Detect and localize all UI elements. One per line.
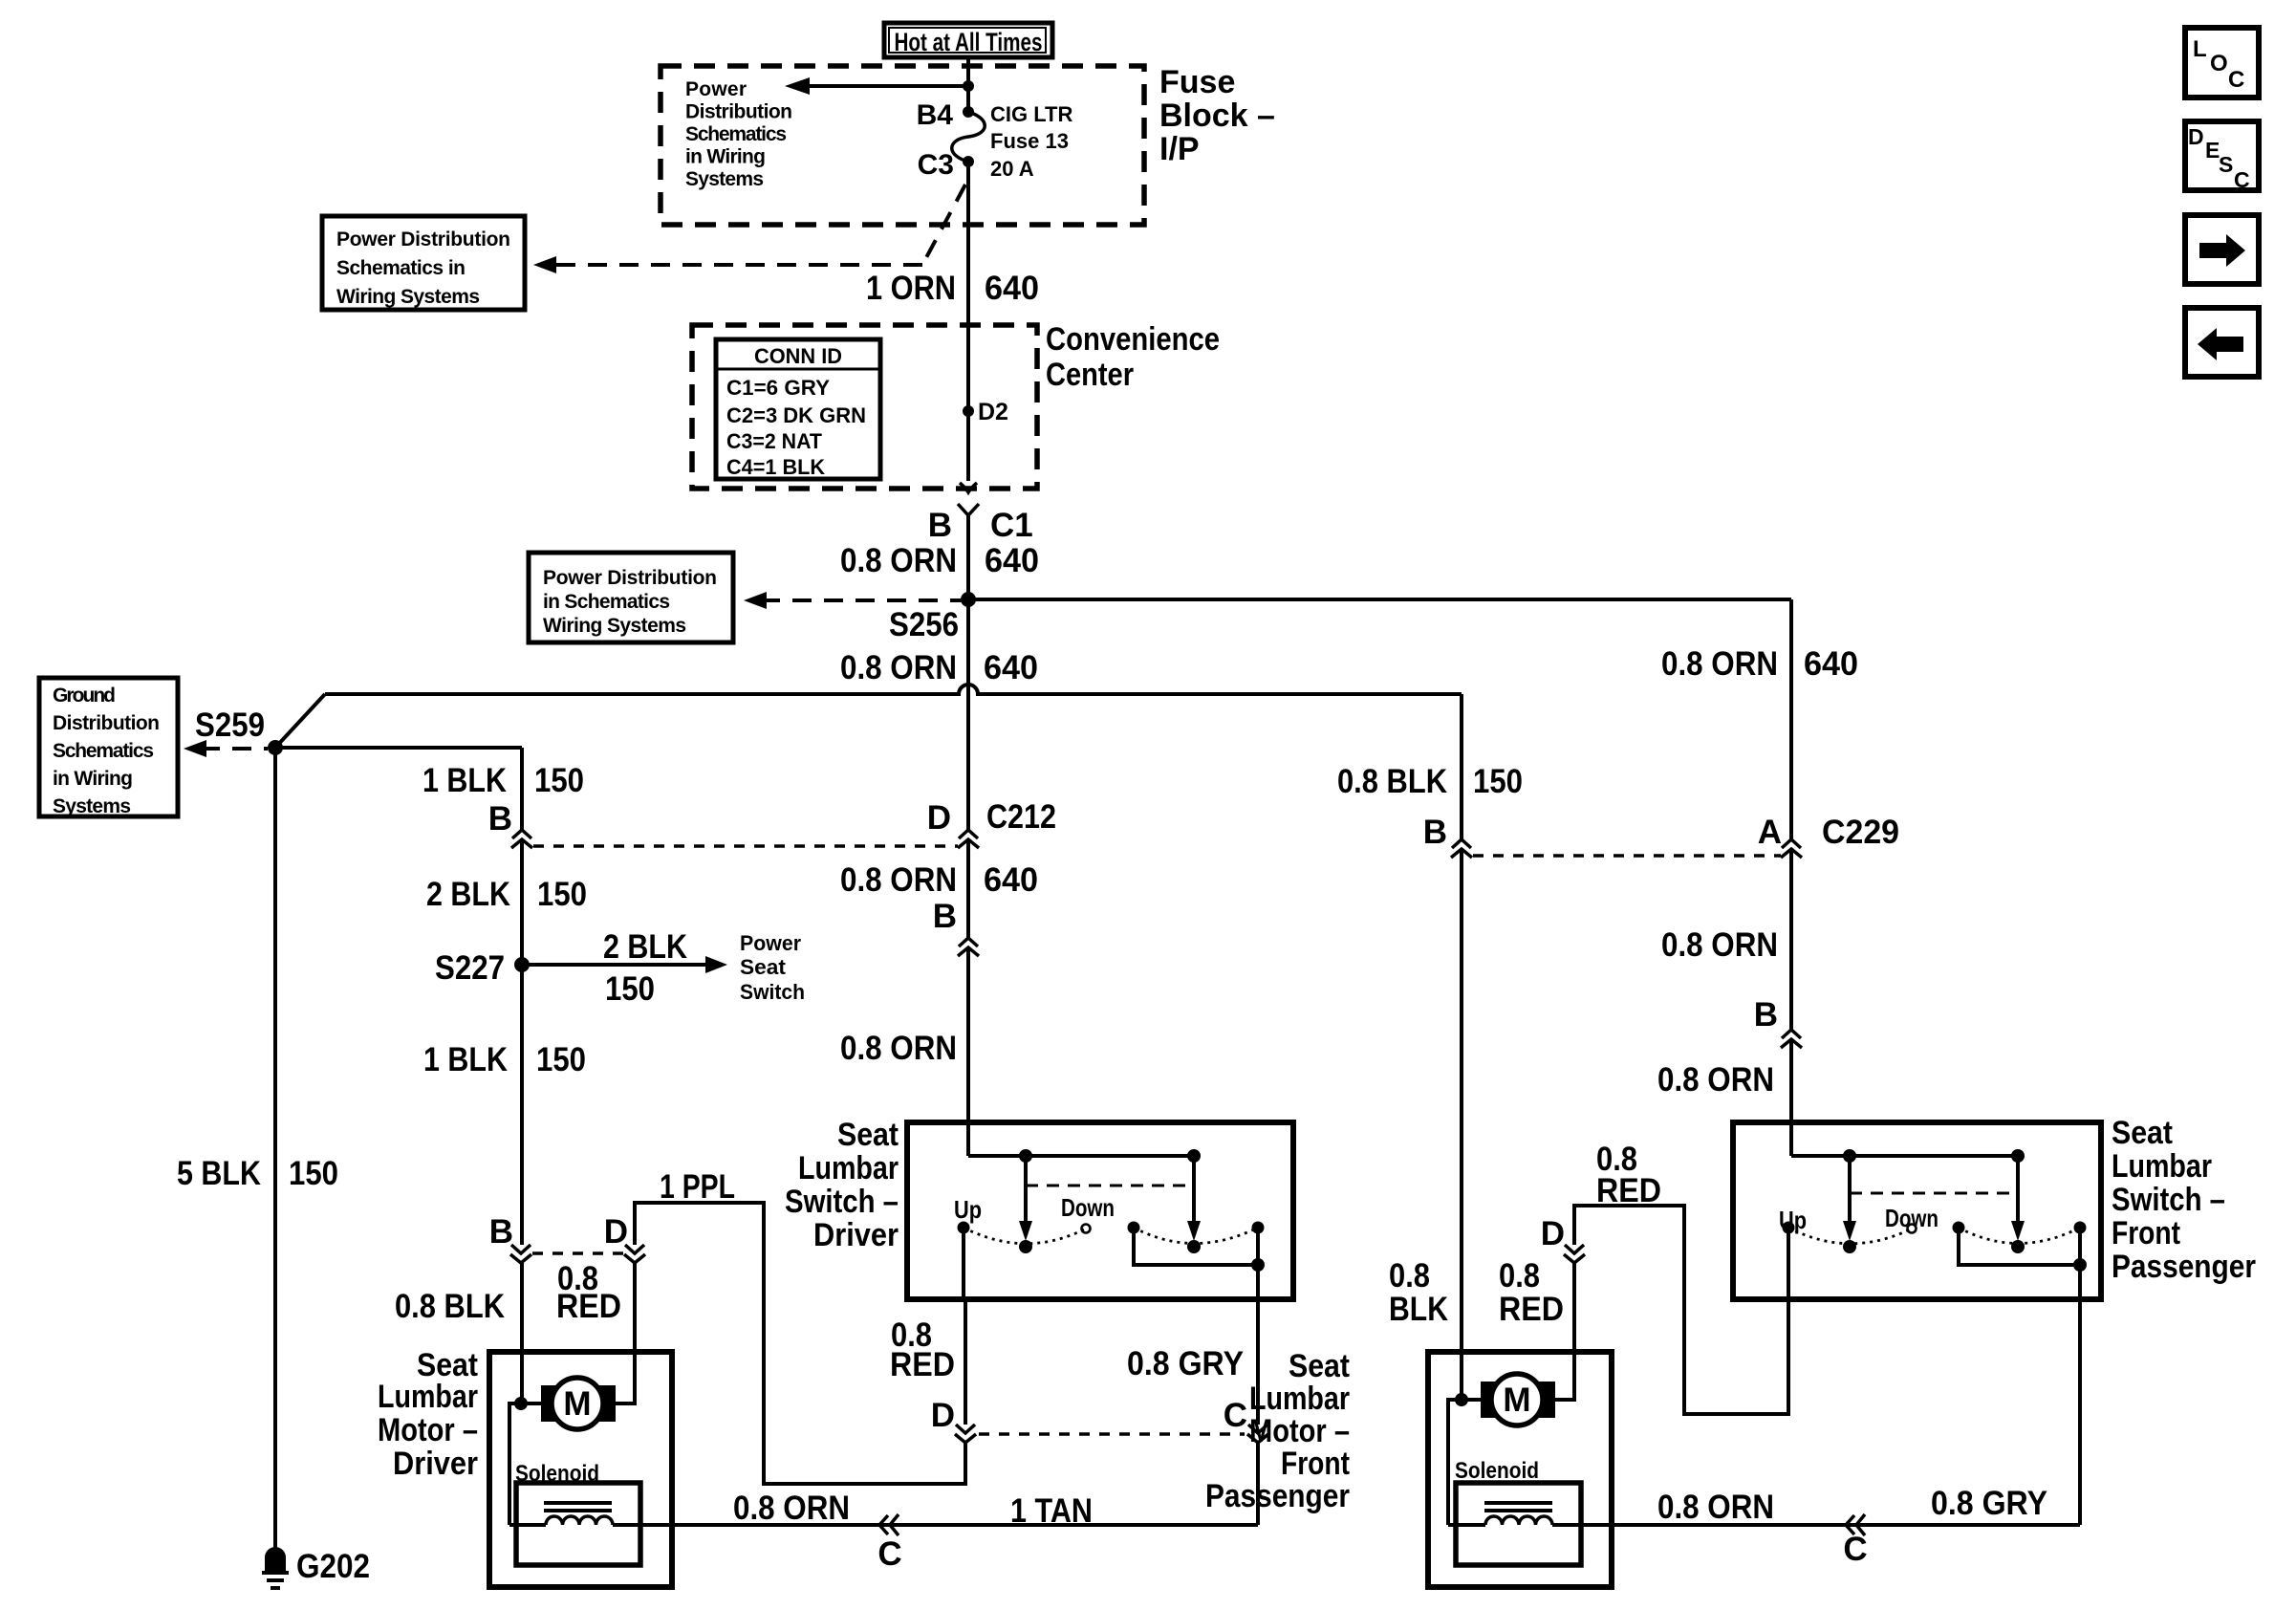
- svg-text:S: S: [2219, 152, 2233, 177]
- fuse block label: [1159, 64, 1275, 167]
- svg-text:Switch –: Switch –: [2112, 1182, 2225, 1218]
- svg-text:D: D: [604, 1213, 628, 1251]
- svg-text:0.8 ORN: 0.8 ORN: [1657, 1489, 1774, 1526]
- label power seat switch: [740, 931, 805, 1004]
- inline connector C passenger chevrons: [1843, 1514, 1867, 1568]
- svg-text:Passenger: Passenger: [1205, 1478, 1350, 1514]
- passenger motor box: [1428, 1352, 1612, 1587]
- wire: passenger up output zigzag red: [1574, 1206, 1788, 1414]
- wire label 0.8 BLK passenger motor: [1389, 1257, 1448, 1328]
- svg-text:Fuse 13: Fuse 13: [990, 129, 1069, 153]
- wire label 0.8 ORN 640 left: [840, 649, 1038, 686]
- arrowhead into connector C1: [960, 483, 977, 492]
- wire: passenger ground into motor: [1460, 849, 1463, 1400]
- svg-text:BLK: BLK: [1389, 1291, 1448, 1328]
- splice S227: [435, 949, 530, 987]
- driver switch dashed linkage: [1026, 1185, 1194, 1187]
- solenoid core lines driver: [544, 1503, 612, 1511]
- svg-text:C2=3 DK GRN: C2=3 DK GRN: [726, 403, 866, 427]
- passenger motor connector pin D chevrons: [1541, 1215, 1585, 1263]
- node passenger switch right: [2011, 1149, 2025, 1163]
- wire: driver switch C down to tan run: [1256, 1443, 1260, 1525]
- driver solenoid box: [515, 1461, 640, 1565]
- dashed connector line C229: [1473, 854, 1781, 858]
- wire: into driver switch: [966, 947, 970, 1156]
- svg-text:Seat: Seat: [740, 955, 787, 979]
- passenger switch feed bar: [1791, 1154, 2018, 1158]
- svg-text:640: 640: [985, 542, 1039, 579]
- passenger switch pin B chevrons: [1754, 996, 1802, 1048]
- svg-text:C1: C1: [990, 507, 1033, 544]
- svg-text:B: B: [933, 898, 957, 935]
- wire: B into driver motor: [520, 1263, 524, 1403]
- svg-text:D: D: [927, 799, 951, 837]
- svg-text:150: 150: [605, 970, 655, 1008]
- svg-text:D2: D2: [978, 399, 1008, 425]
- fuse block I/P dashed box: [661, 66, 1144, 225]
- node: driver motor B junction: [514, 1397, 528, 1410]
- svg-text:C212: C212: [986, 798, 1056, 836]
- passenger switch contacts left pole: [1783, 1222, 1917, 1254]
- svg-text:Seat: Seat: [837, 1117, 899, 1153]
- svg-text:1 ORN: 1 ORN: [866, 270, 956, 307]
- svg-text:O: O: [2210, 51, 2228, 76]
- wire: ground down to G202: [273, 748, 277, 1554]
- svg-text:0.8 ORN: 0.8 ORN: [840, 649, 957, 686]
- svg-text:B: B: [1423, 814, 1447, 851]
- svg-text:0.8 ORN: 0.8 ORN: [1661, 926, 1778, 964]
- wire: passenger power below C229: [1789, 849, 1793, 1030]
- svg-text:S259: S259: [195, 707, 265, 744]
- svg-text:M: M: [1503, 1382, 1530, 1419]
- svg-text:Switch: Switch: [740, 980, 805, 1004]
- solenoid core lines passenger: [1484, 1503, 1552, 1511]
- icon box LOC: [2185, 28, 2259, 98]
- passenger solenoid box: [1455, 1458, 1581, 1565]
- motor connector pin D chevrons down: [604, 1213, 645, 1263]
- svg-text:B: B: [928, 507, 952, 544]
- svg-text:B: B: [488, 800, 512, 838]
- svg-text:C3=2 NAT: C3=2 NAT: [726, 429, 823, 453]
- svg-text:Front: Front: [2112, 1215, 2180, 1251]
- svg-text:Seat: Seat: [2112, 1115, 2173, 1151]
- wire: passenger solenoid bottom run: [1448, 1523, 2080, 1527]
- dashed connector line C212: [533, 844, 958, 848]
- label seat lumbar motor driver: [378, 1347, 478, 1482]
- svg-text:Block –: Block –: [1159, 98, 1275, 134]
- wire: passenger D into motor: [1553, 1263, 1574, 1400]
- svg-text:C: C: [877, 1535, 901, 1573]
- svg-text:0.8 ORN: 0.8 ORN: [1657, 1061, 1774, 1099]
- svg-text:1 BLK: 1 BLK: [422, 762, 507, 799]
- svg-text:Lumbar: Lumbar: [798, 1150, 899, 1186]
- svg-text:0.8 ORN: 0.8 ORN: [733, 1490, 850, 1527]
- node D2: [963, 399, 1008, 425]
- wire label 0.8 RED driver switch: [890, 1316, 955, 1383]
- svg-text:0.8 GRY: 0.8 GRY: [1931, 1485, 2047, 1522]
- wire: driver right pole merge: [1134, 1228, 1265, 1272]
- wire: S259 to driver ground drop: [275, 746, 522, 750]
- motor M passenger: [1481, 1374, 1555, 1425]
- passenger switch contacts right pole: [1953, 1222, 2087, 1254]
- wire label 0.8 ORN 640 below C212: [840, 861, 1038, 899]
- svg-text:1 TAN: 1 TAN: [1010, 1492, 1093, 1530]
- svg-text:0.8 ORN: 0.8 ORN: [840, 861, 957, 899]
- box: power distribution in schematics wiring systems: [529, 553, 733, 642]
- wire label 1 BLK 150 lower: [423, 1041, 586, 1078]
- hot at all times box: [884, 23, 1052, 57]
- svg-text:150: 150: [536, 1041, 586, 1078]
- wire: ground bus with hop over orange wire: [325, 685, 1462, 694]
- connector C229 pin A chevrons: [1758, 814, 1899, 858]
- connector C229 pin B chevrons: [1423, 814, 1472, 858]
- svg-text:Driver: Driver: [813, 1217, 899, 1253]
- wire label 0.8 RED passenger motor: [1499, 1257, 1564, 1328]
- svg-text:C229: C229: [1822, 814, 1899, 851]
- svg-text:Driver: Driver: [393, 1446, 478, 1482]
- svg-text:C: C: [1224, 1397, 1247, 1434]
- svg-text:Lumbar: Lumbar: [378, 1379, 478, 1415]
- wire label 0.8 ORN 640 right: [1661, 645, 1858, 683]
- svg-text:Front: Front: [1281, 1446, 1350, 1482]
- icon box arrow right: [2185, 215, 2259, 284]
- wire: right ground drop x1529: [1460, 694, 1463, 839]
- wire label 0.8 RED passenger top: [1596, 1141, 1661, 1209]
- ground G202: [262, 1547, 370, 1588]
- svg-text:150: 150: [1473, 763, 1523, 800]
- svg-text:I/P: I/P: [1159, 131, 1200, 167]
- svg-text:C3: C3: [918, 149, 954, 181]
- wire: below C212: [966, 839, 970, 938]
- splice S256: [889, 592, 976, 643]
- dashed ref line from C3 to power distribution box: [533, 185, 965, 273]
- svg-text:D: D: [2188, 124, 2204, 149]
- connector C1 female Y: [928, 504, 1033, 544]
- svg-text:Systems: Systems: [685, 168, 764, 190]
- dashed motor connector line: [532, 1251, 623, 1255]
- svg-text:640: 640: [985, 270, 1039, 307]
- svg-text:1 BLK: 1 BLK: [423, 1041, 508, 1078]
- svg-text:0.8: 0.8: [1499, 1257, 1540, 1295]
- driver switch actuator arrows: [1019, 1156, 1201, 1241]
- connector C212 pin D chevrons: [927, 798, 1056, 848]
- svg-text:B4: B4: [917, 99, 954, 131]
- dashed ref arrow to S256: [744, 592, 962, 609]
- svg-text:Hot at All Times: Hot at All Times: [895, 28, 1043, 56]
- svg-text:RED: RED: [556, 1288, 621, 1325]
- svg-text:in Wiring: in Wiring: [53, 768, 133, 790]
- svg-text:RED: RED: [890, 1346, 955, 1383]
- node B4: [917, 99, 974, 131]
- svg-text:Up: Up: [954, 1195, 982, 1224]
- svg-text:2 BLK: 2 BLK: [426, 876, 510, 913]
- label seat lumbar switch driver: [785, 1117, 899, 1253]
- svg-text:Center: Center: [1046, 357, 1134, 393]
- svg-text:Solenoid: Solenoid: [515, 1461, 599, 1487]
- svg-text:Ground: Ground: [53, 685, 116, 707]
- wire below C1: [966, 515, 970, 599]
- svg-text:Lumbar: Lumbar: [2112, 1148, 2212, 1185]
- svg-text:A: A: [1758, 814, 1782, 851]
- wire: C3 down to convenience center: [966, 162, 970, 481]
- driver switch connector pin C chevrons: [1224, 1397, 1268, 1443]
- node: passenger motor B junction: [1455, 1393, 1468, 1406]
- svg-text:M: M: [563, 1385, 591, 1423]
- label: power distribution schematics (inside fuse box): [685, 78, 792, 190]
- wire: driver ground drop x546: [520, 748, 524, 830]
- svg-text:Power: Power: [685, 78, 747, 100]
- labels Up Down driver: [954, 1193, 1115, 1224]
- inline connector C driver chevrons: [877, 1514, 901, 1573]
- wire: D into driver motor: [614, 1263, 635, 1403]
- svg-text:Convenience: Convenience: [1046, 321, 1220, 358]
- svg-text:C4=1 BLK: C4=1 BLK: [726, 455, 825, 479]
- svg-text:150: 150: [537, 876, 587, 913]
- wire: feed arrow to power distribution: [785, 77, 974, 95]
- motor connector pin B chevrons down: [489, 1213, 531, 1263]
- svg-text:150: 150: [534, 762, 584, 799]
- svg-text:Lumbar: Lumbar: [1249, 1381, 1350, 1417]
- svg-text:1 PPL: 1 PPL: [660, 1168, 735, 1206]
- svg-text:S227: S227: [435, 949, 505, 987]
- svg-text:D: D: [931, 1397, 955, 1434]
- box: ground distribution schematics in wiring systems: [39, 678, 178, 817]
- wire label 1 ORN 640: [866, 270, 1039, 307]
- wire: junction elbow to solenoid passenger: [1448, 1400, 1462, 1525]
- splice S259: [195, 707, 283, 755]
- wire from hot box down to B4: [966, 57, 970, 112]
- svg-text:C: C: [2228, 67, 2244, 93]
- icon box DESC: [2185, 121, 2259, 192]
- svg-text:Wiring Systems: Wiring Systems: [543, 615, 686, 637]
- svg-text:640: 640: [984, 861, 1038, 899]
- node C3: [918, 149, 974, 181]
- svg-text:Fuse: Fuse: [1159, 64, 1235, 100]
- svg-text:0.8 BLK: 0.8 BLK: [1337, 763, 1447, 800]
- svg-text:Power Distribution: Power Distribution: [336, 228, 510, 250]
- svg-text:Switch –: Switch –: [785, 1184, 899, 1220]
- CONN ID table: [716, 339, 880, 479]
- svg-text:640: 640: [1804, 645, 1858, 683]
- svg-text:Distribution: Distribution: [685, 101, 792, 123]
- wire: into passenger switch: [1789, 1039, 1793, 1156]
- wire: passenger gry output: [2078, 1265, 2082, 1525]
- svg-text:20 A: 20 A: [990, 157, 1034, 181]
- svg-text:Motor –: Motor –: [1249, 1413, 1350, 1449]
- wire: orange center column to driver switch: [966, 599, 970, 830]
- wire: B chevron down to S227: [520, 839, 524, 965]
- passenger right pole merge: [1959, 1228, 2087, 1272]
- node driver switch left: [1019, 1149, 1032, 1163]
- svg-text:Power Distribution: Power Distribution: [543, 567, 717, 589]
- driver switch feed bar: [968, 1154, 1194, 1158]
- passenger switch actuator arrows: [1843, 1156, 2025, 1241]
- dashed ref arrow from S259: [184, 740, 268, 757]
- svg-text:L: L: [2193, 36, 2207, 62]
- icon box arrow left: [2185, 308, 2259, 377]
- svg-text:5 BLK: 5 BLK: [177, 1155, 261, 1192]
- svg-text:Motor –: Motor –: [378, 1412, 478, 1448]
- svg-text:Systems: Systems: [53, 795, 131, 817]
- solenoid coil driver: [546, 1516, 613, 1525]
- passenger switch dashed linkage: [1850, 1192, 2018, 1195]
- labels Up Down passenger: [1779, 1204, 1939, 1234]
- svg-text:C1=6 GRY: C1=6 GRY: [726, 376, 830, 400]
- solenoid coil passenger: [1485, 1516, 1552, 1525]
- driver switch contacts left pole: [958, 1222, 1091, 1254]
- driver switch box: [907, 1122, 1293, 1299]
- svg-text:0.8: 0.8: [1389, 1257, 1430, 1295]
- svg-text:150: 150: [289, 1155, 338, 1192]
- svg-text:RED: RED: [1596, 1172, 1661, 1209]
- wire: junction to motor terminal: [521, 1402, 541, 1405]
- wire: junction to motor terminal passenger: [1462, 1398, 1481, 1402]
- node driver switch right: [1187, 1149, 1201, 1163]
- wire: S227 down to motor connector: [520, 965, 524, 1245]
- convenience center dashed box: [692, 325, 1037, 489]
- svg-text:RED: RED: [1499, 1291, 1564, 1328]
- box: power distribution schematics in wiring systems: [322, 216, 525, 310]
- svg-text:0.8 ORN: 0.8 ORN: [1661, 645, 1778, 683]
- fuse CIG LTR Fuse 13 20 A: [952, 102, 1073, 181]
- driver switch contacts right pole: [1128, 1222, 1265, 1254]
- wire: 1 PPL run from switch D to motor D: [635, 1203, 965, 1484]
- wire label 5 BLK 150: [177, 1155, 338, 1192]
- svg-text:CIG LTR: CIG LTR: [990, 102, 1072, 126]
- wire: driver up output: [964, 1228, 965, 1425]
- driver motor box: [489, 1352, 672, 1587]
- wire label 0.8 BLK 150 right: [1337, 763, 1523, 800]
- svg-text:in Schematics: in Schematics: [543, 591, 670, 613]
- svg-text:Schematics in: Schematics in: [336, 257, 466, 279]
- wire label 2 BLK 150: [426, 876, 587, 913]
- wire: right power drop x1874: [1789, 599, 1793, 839]
- wire: S259 diagonal to ground bus: [275, 694, 325, 748]
- svg-text:B: B: [489, 1213, 513, 1251]
- svg-text:0.8 BLK: 0.8 BLK: [395, 1288, 505, 1325]
- node passenger switch left: [1843, 1149, 1856, 1163]
- convenience center label: [1046, 321, 1220, 393]
- label seat lumbar motor front passenger: [1205, 1348, 1350, 1514]
- svg-text:2 BLK: 2 BLK: [603, 928, 687, 966]
- motor M driver: [541, 1378, 616, 1429]
- svg-text:0.8 ORN: 0.8 ORN: [840, 542, 957, 579]
- label seat lumbar switch front passenger: [2112, 1115, 2256, 1285]
- svg-text:C: C: [2234, 167, 2250, 192]
- svg-text:D: D: [1541, 1215, 1565, 1252]
- svg-text:Seat: Seat: [1289, 1348, 1350, 1384]
- wire: S256 branch right: [968, 598, 1791, 601]
- svg-text:Wiring Systems: Wiring Systems: [336, 286, 480, 308]
- svg-text:B: B: [1754, 996, 1778, 1033]
- svg-text:0.8 GRY: 0.8 GRY: [1127, 1345, 1244, 1382]
- wire: junction elbow to solenoid: [509, 1403, 521, 1525]
- svg-text:Solenoid: Solenoid: [1455, 1458, 1539, 1484]
- driver switch connector pin D chevrons: [931, 1397, 976, 1443]
- svg-text:C: C: [1843, 1531, 1867, 1568]
- wire: driver gry output: [1256, 1265, 1260, 1425]
- svg-text:S256: S256: [889, 606, 959, 643]
- connector C212 pin B chevrons: [488, 800, 532, 848]
- svg-text:in Wiring: in Wiring: [685, 146, 766, 168]
- svg-text:Distribution: Distribution: [53, 712, 160, 734]
- dashed driver switch connector line: [979, 1432, 1245, 1436]
- driver switch pin B chevrons: [933, 898, 979, 956]
- wire label 0.8 RED (driver motor): [556, 1260, 621, 1325]
- svg-text:Schematics: Schematics: [685, 123, 787, 145]
- wire label 1 BLK 150 upper: [422, 762, 584, 799]
- svg-text:CONN ID: CONN ID: [754, 344, 842, 368]
- svg-text:0.8 ORN: 0.8 ORN: [840, 1030, 957, 1067]
- svg-text:Power: Power: [740, 931, 801, 955]
- wire label 0.8 ORN 640: [840, 542, 1039, 579]
- svg-text:Schematics: Schematics: [53, 740, 154, 762]
- svg-text:Down: Down: [1061, 1193, 1115, 1222]
- svg-text:640: 640: [984, 649, 1038, 686]
- svg-text:G202: G202: [296, 1548, 370, 1585]
- wire: solenoid bottom run to switch C: [509, 1523, 1258, 1527]
- wire: S227 to power seat switch arrow: [522, 928, 727, 1008]
- passenger switch box: [1733, 1122, 2101, 1299]
- svg-text:Passenger: Passenger: [2112, 1249, 2256, 1285]
